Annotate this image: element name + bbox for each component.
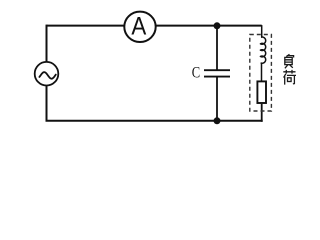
AC source circle [35,62,59,86]
capacitor branch upper wire [216,26,218,70]
wire top [47,25,262,27]
node bottom junction dot [214,117,221,124]
wire left [46,25,48,121]
capacitor C plates [204,69,230,71]
svg-text:C: C [192,64,200,81]
inductor L [260,25,265,81]
dashed load box [250,35,272,112]
resistor R [257,81,266,103]
label 負 (load kanji 1) [285,54,294,68]
label 荷 (load kanji 2) [283,70,296,85]
capacitor branch lower wire [216,77,218,121]
wire bottom [46,120,263,122]
ammeter A circle [124,12,155,42]
wire below resistor [261,104,263,122]
AC source sine symbol [39,72,55,79]
node top junction dot [214,22,221,29]
svg-text:A: A [131,12,146,40]
